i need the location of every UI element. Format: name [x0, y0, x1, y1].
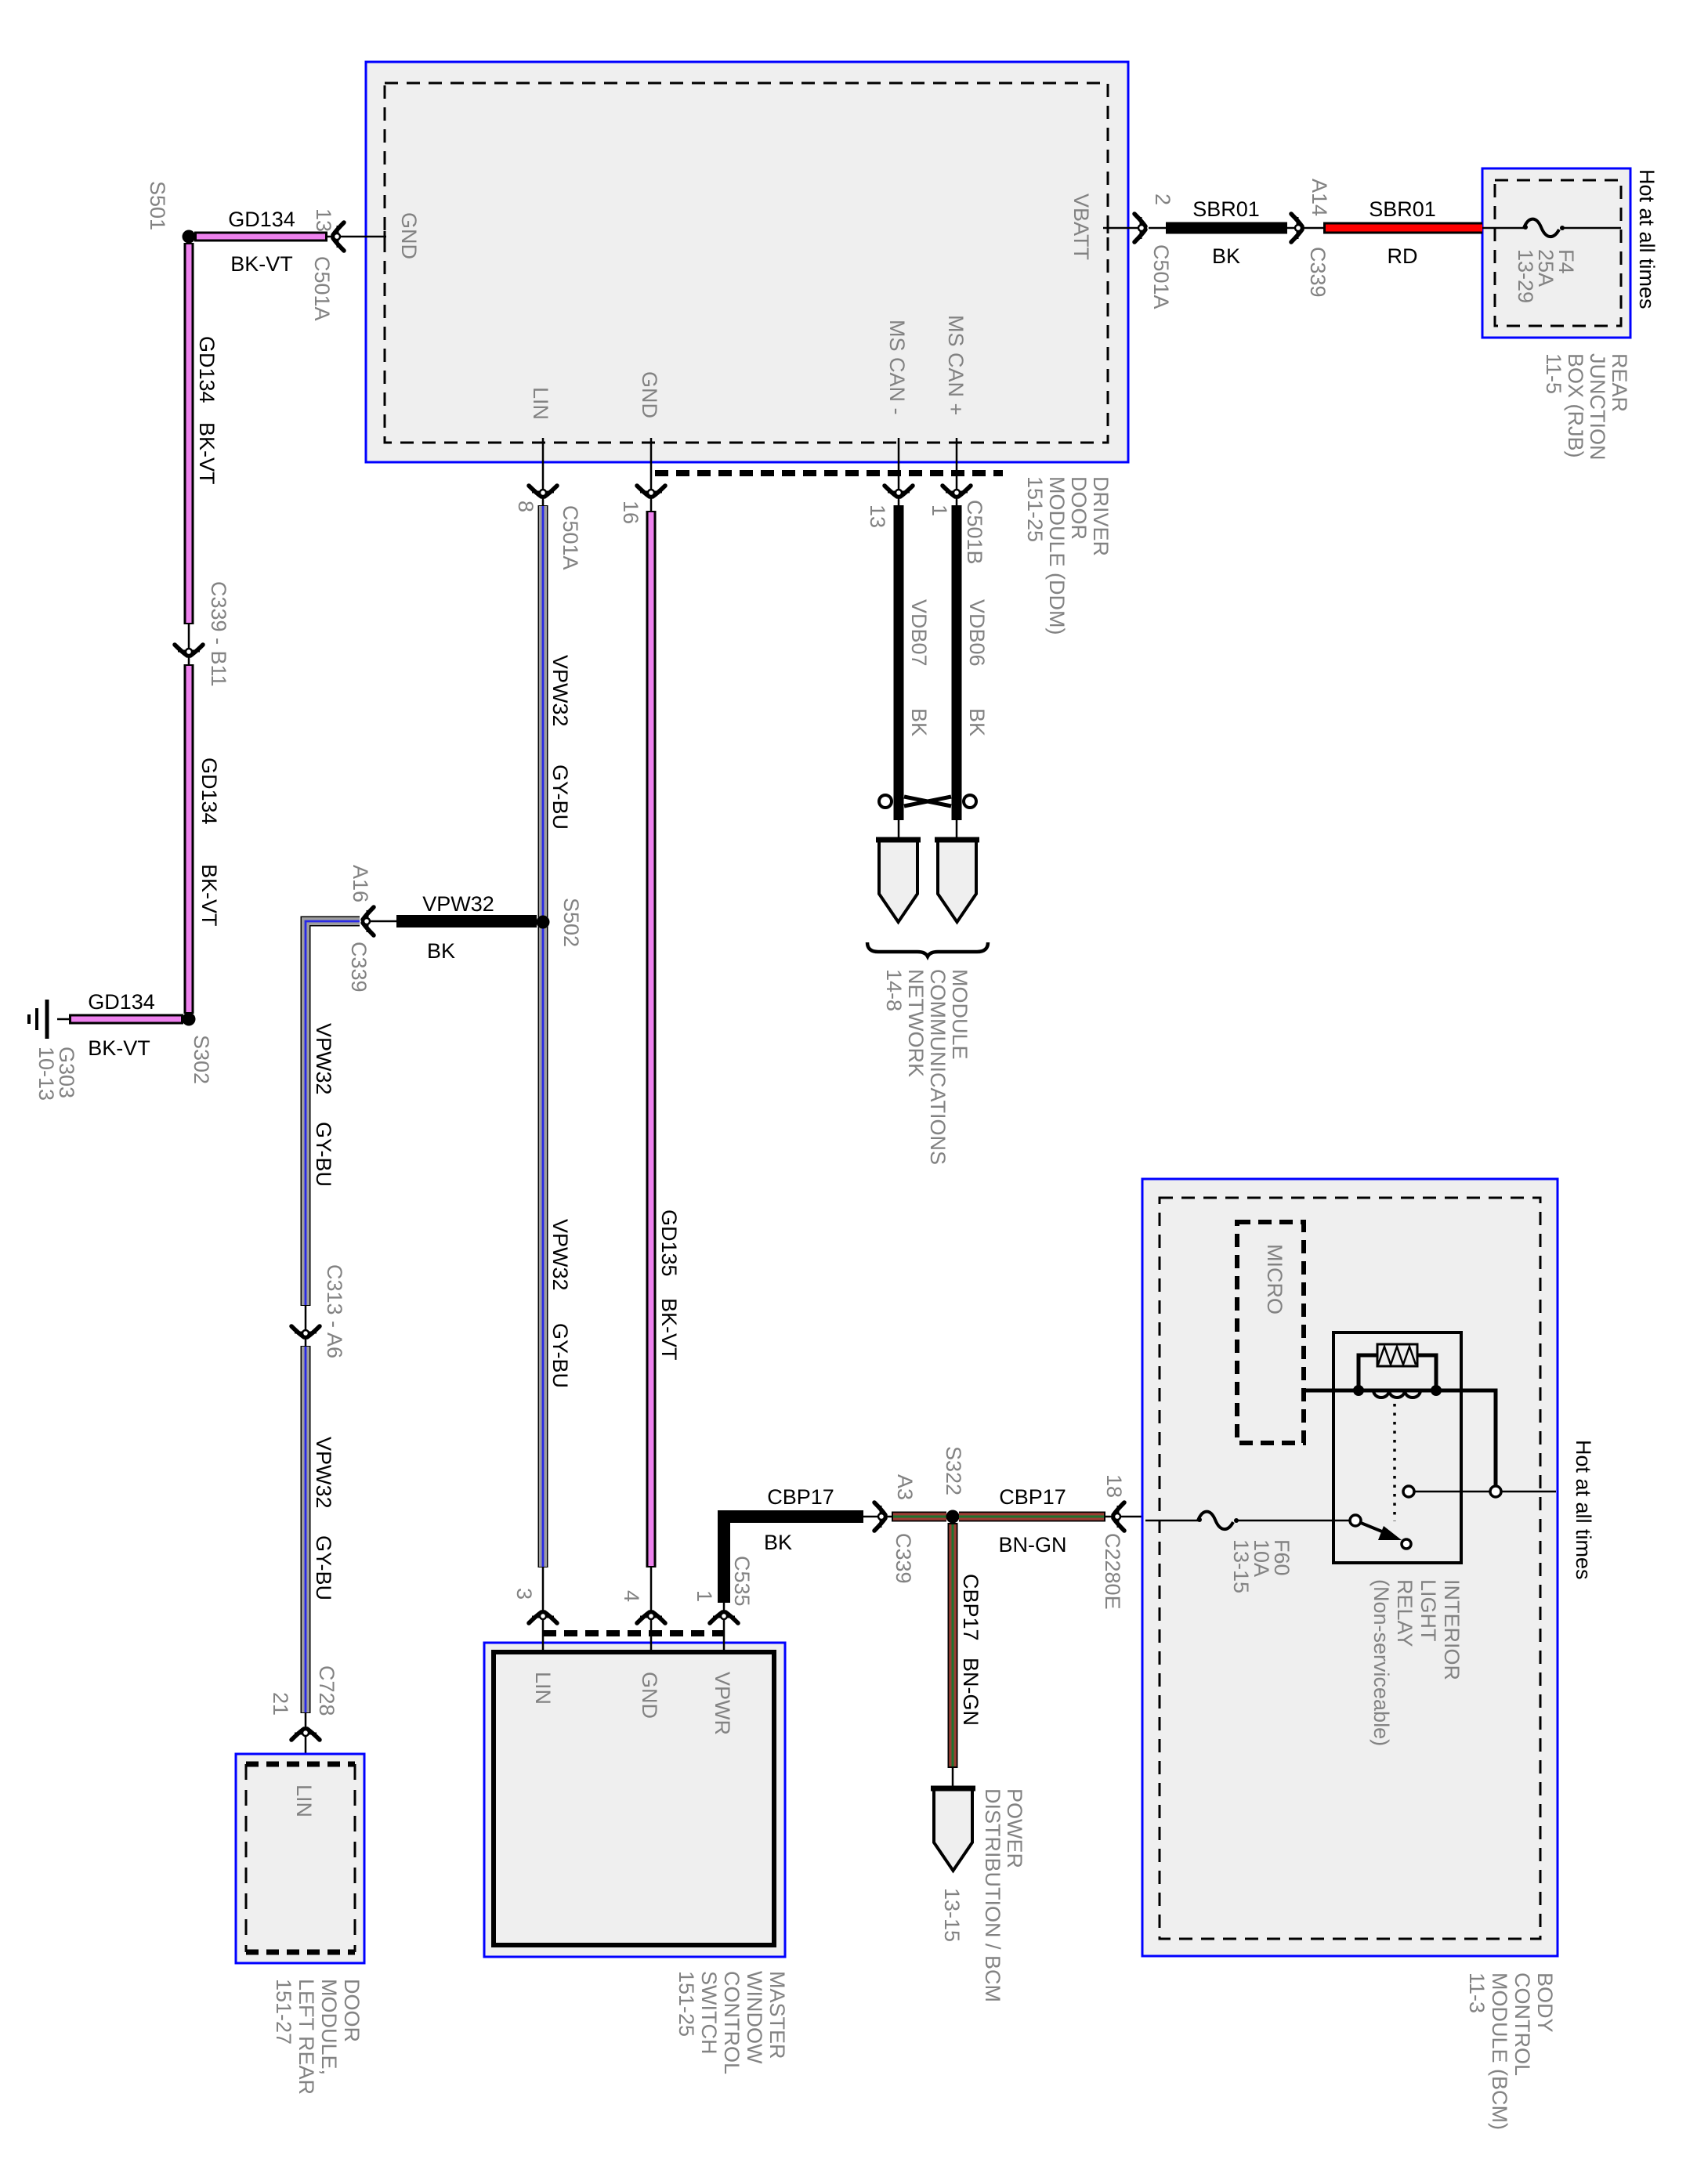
svg-text:BK-VT: BK-VT [230, 252, 293, 276]
svg-text:151-27: 151-27 [272, 1979, 295, 2045]
connector arrow C501A pin 13 [310, 208, 344, 321]
svg-text:C339 - B11: C339 - B11 [207, 581, 230, 687]
svg-text:LIGHT: LIGHT [1417, 1579, 1440, 1642]
svg-text:GND: GND [638, 371, 661, 418]
svg-text:BK: BK [764, 1531, 792, 1554]
svg-text:DISTRIBUTION / BCM: DISTRIBUTION / BCM [981, 1788, 1004, 2002]
svg-text:POWER: POWER [1003, 1788, 1026, 1868]
off-page shield POWER DISTRIBUTION / BCM [931, 1768, 1026, 2002]
off-page shield MS CAN + [935, 820, 979, 922]
svg-text:21: 21 [269, 1692, 292, 1716]
svg-text:GY-BU: GY-BU [548, 1323, 572, 1388]
svg-text:11-3: 11-3 [1465, 1972, 1489, 2013]
svg-text:S502: S502 [559, 898, 583, 947]
svg-text:MODULE (DDM): MODULE (DDM) [1045, 476, 1069, 635]
label BODY CONTROL MODULE (BCM) 11-3 [1465, 1972, 1557, 2130]
pin line LIN (DDM bottom pin 8) [514, 438, 582, 570]
svg-text:MODULE: MODULE [948, 969, 972, 1060]
svg-text:13: 13 [312, 208, 335, 232]
svg-text:C501A: C501A [1149, 244, 1173, 309]
svg-text:BK-VT: BK-VT [657, 1298, 681, 1361]
component BODY CONTROL MODULE (BCM) [1142, 1179, 1558, 1956]
wire GD134 BK-VT (lower segment to S302) [189, 664, 221, 1014]
svg-text:13-15: 13-15 [940, 1888, 964, 1942]
svg-text:C535: C535 [730, 1556, 754, 1607]
svg-text:VDB06: VDB06 [965, 599, 989, 667]
junction dots on coil wire [1353, 1385, 1364, 1396]
wire fuse line (C2280E to relay common) [1145, 1520, 1350, 1522]
svg-text:GD135: GD135 [657, 1210, 681, 1277]
svg-text:CBP17: CBP17 [959, 1574, 982, 1641]
svg-text:8: 8 [514, 501, 537, 512]
svg-text:CONTROL: CONTROL [720, 1971, 744, 2074]
svg-text:BK: BK [965, 708, 989, 736]
svg-text:DOOR: DOOR [1067, 476, 1091, 540]
svg-text:13: 13 [866, 504, 889, 528]
svg-text:16: 16 [619, 501, 642, 524]
svg-text:BODY: BODY [1533, 1972, 1557, 2033]
connector dashed line C535 [543, 1630, 724, 1636]
svg-text:BK: BK [907, 708, 931, 736]
component MASTER WINDOW CONTROL SWITCH [484, 1643, 785, 1957]
fuse F4 25A [1514, 219, 1578, 303]
svg-text:GY-BU: GY-BU [312, 1122, 335, 1187]
svg-text:13-29: 13-29 [1514, 249, 1537, 303]
fuse F60 10A [1197, 1512, 1294, 1593]
svg-text:GY-BU: GY-BU [312, 1535, 335, 1600]
wire VPW32 GY-BU (DDM LIN down to S502) [543, 505, 572, 1567]
svg-text:151-25: 151-25 [675, 1971, 698, 2037]
svg-text:MICRO: MICRO [1263, 1244, 1286, 1314]
svg-text:DRIVER: DRIVER [1089, 476, 1113, 556]
svg-text:C339: C339 [347, 942, 371, 993]
svg-text:GD134: GD134 [195, 336, 219, 403]
component REAR JUNCTION BOX (RJB) [1482, 168, 1630, 338]
wire inside RJB [1482, 227, 1621, 230]
svg-text:GY-BU: GY-BU [548, 765, 572, 830]
brace MODULE COMMUNICATIONS NETWORK [867, 942, 988, 956]
node S501 [146, 181, 196, 244]
relay coil [1373, 1390, 1420, 1398]
svg-text:S501: S501 [146, 181, 169, 230]
svg-text:(Non-serviceable): (Non-serviceable) [1370, 1579, 1393, 1746]
wire VDB06 BK [957, 505, 989, 820]
svg-text:2: 2 [1151, 193, 1174, 205]
svg-text:MODULE (BCM): MODULE (BCM) [1488, 1972, 1511, 2130]
svg-text:VDB07: VDB07 [907, 599, 931, 667]
svg-text:C313 - A6: C313 - A6 [323, 1264, 346, 1358]
connector C313 - A6 [291, 1264, 346, 1358]
svg-text:GND: GND [397, 212, 421, 259]
twisted pair symbol [879, 795, 976, 808]
pin VPWR (MWCS pin 1) [693, 1556, 754, 1735]
svg-text:RD: RD [1388, 244, 1418, 268]
svg-text:C728: C728 [315, 1665, 338, 1716]
node S322 [942, 1446, 965, 1524]
svg-text:BK-VT: BK-VT [195, 422, 219, 485]
svg-text:GD134: GD134 [197, 758, 221, 825]
svg-text:1: 1 [693, 1590, 716, 1602]
pin line MS CAN - (DDM pin 13) [866, 438, 913, 528]
svg-text:BK-VT: BK-VT [88, 1036, 150, 1060]
svg-text:BN-GN: BN-GN [959, 1658, 982, 1726]
pin LIN (MWCS pin 3) [512, 1567, 557, 1705]
label MASTER WINDOW CONTROL SWITCH 151-25 [675, 1971, 789, 2074]
pin GND (DDM left) [385, 212, 421, 259]
label MODULE COMMUNICATIONS NETWORK 14-8 [882, 969, 972, 1165]
component MICRO (dashed box) [1237, 1222, 1304, 1443]
relay box INTERIOR LIGHT RELAY [1333, 1332, 1461, 1563]
connector arrow C339 pin A16 [347, 865, 374, 993]
svg-text:C339: C339 [1306, 247, 1330, 298]
wire SBR01 BK [1149, 197, 1287, 268]
svg-text:REAR: REAR [1608, 353, 1631, 412]
svg-text:LIN: LIN [529, 387, 552, 420]
svg-text:BK-VT: BK-VT [197, 864, 221, 927]
svg-text:A3: A3 [893, 1474, 917, 1500]
svg-text:C339: C339 [892, 1533, 915, 1584]
wire VPW32 BK (S502 left) [362, 892, 537, 963]
svg-text:WINDOW: WINDOW [743, 1971, 766, 2064]
svg-text:VPW32: VPW32 [312, 1023, 335, 1095]
label INTERIOR LIGHT RELAY (Non-serviceable) [1370, 1579, 1464, 1746]
svg-text:A14: A14 [1308, 179, 1331, 216]
svg-text:VBATT: VBATT [1069, 193, 1093, 260]
svg-text:BK: BK [427, 939, 455, 963]
relay NO contact [1403, 1486, 1414, 1497]
svg-text:LEFT REAR: LEFT REAR [295, 1979, 318, 2095]
wire GD135 BK-VT (DDM GND to MWCS) [651, 511, 681, 1567]
label DRIVER DOOR MODULE (DDM) 151-25 [1023, 476, 1113, 635]
svg-text:JUNCTION: JUNCTION [1586, 353, 1609, 461]
resistor (relay suppression) [1359, 1344, 1436, 1387]
svg-text:CONTROL: CONTROL [1511, 1972, 1534, 2076]
svg-text:GD134: GD134 [228, 208, 295, 231]
pin VBATT (DDM right) [1069, 193, 1108, 260]
svg-text:VPW32: VPW32 [312, 1437, 335, 1509]
connector arrow C728 pin 21 [269, 1665, 338, 1767]
svg-text:18: 18 [1102, 1474, 1126, 1498]
svg-text:13-15: 13-15 [1229, 1539, 1253, 1593]
connector dashed line C501B [655, 470, 1003, 476]
pin line GND (DDM bottom pin 16) [619, 438, 665, 524]
connector arrow C339 pin A14 [1287, 179, 1331, 298]
wire SBR01 RD [1323, 197, 1482, 268]
svg-text:SBR01: SBR01 [1369, 197, 1436, 221]
component DOOR MODULE, LEFT REAR [236, 1754, 364, 1963]
svg-text:VPW32: VPW32 [548, 655, 572, 727]
svg-text:151-25: 151-25 [1023, 476, 1047, 542]
wire GD134 BK-VT (S501 to DDM GND) [194, 208, 386, 276]
svg-text:A16: A16 [349, 865, 372, 902]
wire Hot at all times (relay contact line) [1414, 1491, 1556, 1493]
svg-text:S302: S302 [190, 1035, 213, 1084]
svg-text:RELAY: RELAY [1393, 1579, 1417, 1647]
svg-text:VPW32: VPW32 [548, 1219, 572, 1291]
svg-text:14-8: 14-8 [882, 969, 906, 1011]
svg-text:CBP17: CBP17 [767, 1485, 834, 1509]
svg-text:C501A: C501A [310, 256, 334, 321]
svg-text:SBR01: SBR01 [1192, 197, 1260, 221]
pin line MS CAN + (DDM pin 1) [928, 438, 986, 565]
svg-text:C501B: C501B [963, 500, 986, 565]
wire coil feed (MICRO to relay, thick) [1304, 1390, 1496, 1485]
svg-text:1: 1 [928, 504, 951, 516]
node S502 [537, 898, 584, 947]
svg-text:LIN: LIN [292, 1784, 316, 1817]
svg-text:MS CAN -: MS CAN - [885, 320, 909, 415]
svg-text:S322: S322 [942, 1446, 965, 1495]
svg-text:GD134: GD134 [88, 990, 155, 1014]
svg-text:C2280E: C2280E [1101, 1533, 1124, 1610]
off-page shield MS CAN - [876, 820, 921, 922]
svg-text:GND: GND [638, 1672, 661, 1719]
component DRIVER DOOR MODULE (DDM) [366, 62, 1128, 462]
connector arrow C339 pin A3 [863, 1474, 917, 1584]
wire VBATT pin line [1103, 227, 1138, 230]
connector arrow C2280E pin 18 [1101, 1474, 1145, 1610]
node S302 [183, 1013, 214, 1085]
wire VDB07 BK [899, 505, 931, 820]
svg-text:CBP17: CBP17 [999, 1485, 1066, 1509]
svg-text:LIN: LIN [531, 1672, 555, 1705]
svg-text:3: 3 [512, 1588, 536, 1600]
wire CBP17 BK (MWCS VPWR up and right) [724, 1485, 863, 1603]
svg-text:NETWORK: NETWORK [904, 969, 928, 1077]
svg-text:SWITCH: SWITCH [697, 1971, 721, 2054]
svg-text:BN-GN: BN-GN [999, 1533, 1067, 1557]
svg-text:C501A: C501A [559, 505, 582, 570]
svg-text:10-13: 10-13 [34, 1047, 58, 1101]
connector C339 - B11 [175, 581, 230, 687]
svg-text:VPW32: VPW32 [422, 892, 494, 916]
svg-text:BOX (RJB): BOX (RJB) [1564, 353, 1587, 458]
svg-text:INTERIOR: INTERIOR [1440, 1579, 1464, 1680]
relay armature dotted link [1393, 1404, 1396, 1521]
svg-text:COMMUNICATIONS: COMMUNICATIONS [926, 969, 950, 1165]
svg-text:DOOR: DOOR [340, 1979, 364, 2042]
ground G303 [29, 1000, 78, 1101]
label DOOR MODULE, LEFT REAR 151-27 [272, 1979, 364, 2095]
wire GD134 BK-VT (S501 down, upper segment) [189, 243, 219, 624]
wire CBP17 BN-GN (S322 to BCM) [959, 1485, 1105, 1557]
svg-text:Hot at all times: Hot at all times [1635, 169, 1659, 309]
wire VPW32 GY-BU (corner and left vertical upper) [306, 921, 360, 1306]
label REAR JUNCTION BOX (RJB) 11-5 [1542, 353, 1631, 461]
wire CBP17 BN-GN (S322 down) [953, 1523, 982, 1768]
svg-text:VPWR: VPWR [711, 1672, 734, 1735]
svg-text:MASTER: MASTER [765, 1971, 789, 2059]
wire CBP17 BN-GN (C339 to S322) [892, 1512, 946, 1522]
svg-text:4: 4 [620, 1590, 643, 1602]
relay feed terminal [1490, 1486, 1501, 1497]
svg-text:BK: BK [1212, 244, 1240, 268]
wire GD134 BK-VT (S302 to ground) [57, 990, 183, 1060]
connector arrow C501A pin 2 [1134, 193, 1174, 309]
svg-text:MS CAN +: MS CAN + [944, 315, 968, 415]
relay common contact and arm [1350, 1515, 1411, 1549]
svg-text:MODULE,: MODULE, [317, 1979, 341, 2075]
svg-text:11-5: 11-5 [1542, 353, 1565, 394]
svg-text:Hot at all times: Hot at all times [1572, 1440, 1595, 1580]
pin GND (MWCS pin 4) [620, 1567, 665, 1719]
wire VPW32 GY-BU (left vertical lower) [306, 1346, 335, 1713]
